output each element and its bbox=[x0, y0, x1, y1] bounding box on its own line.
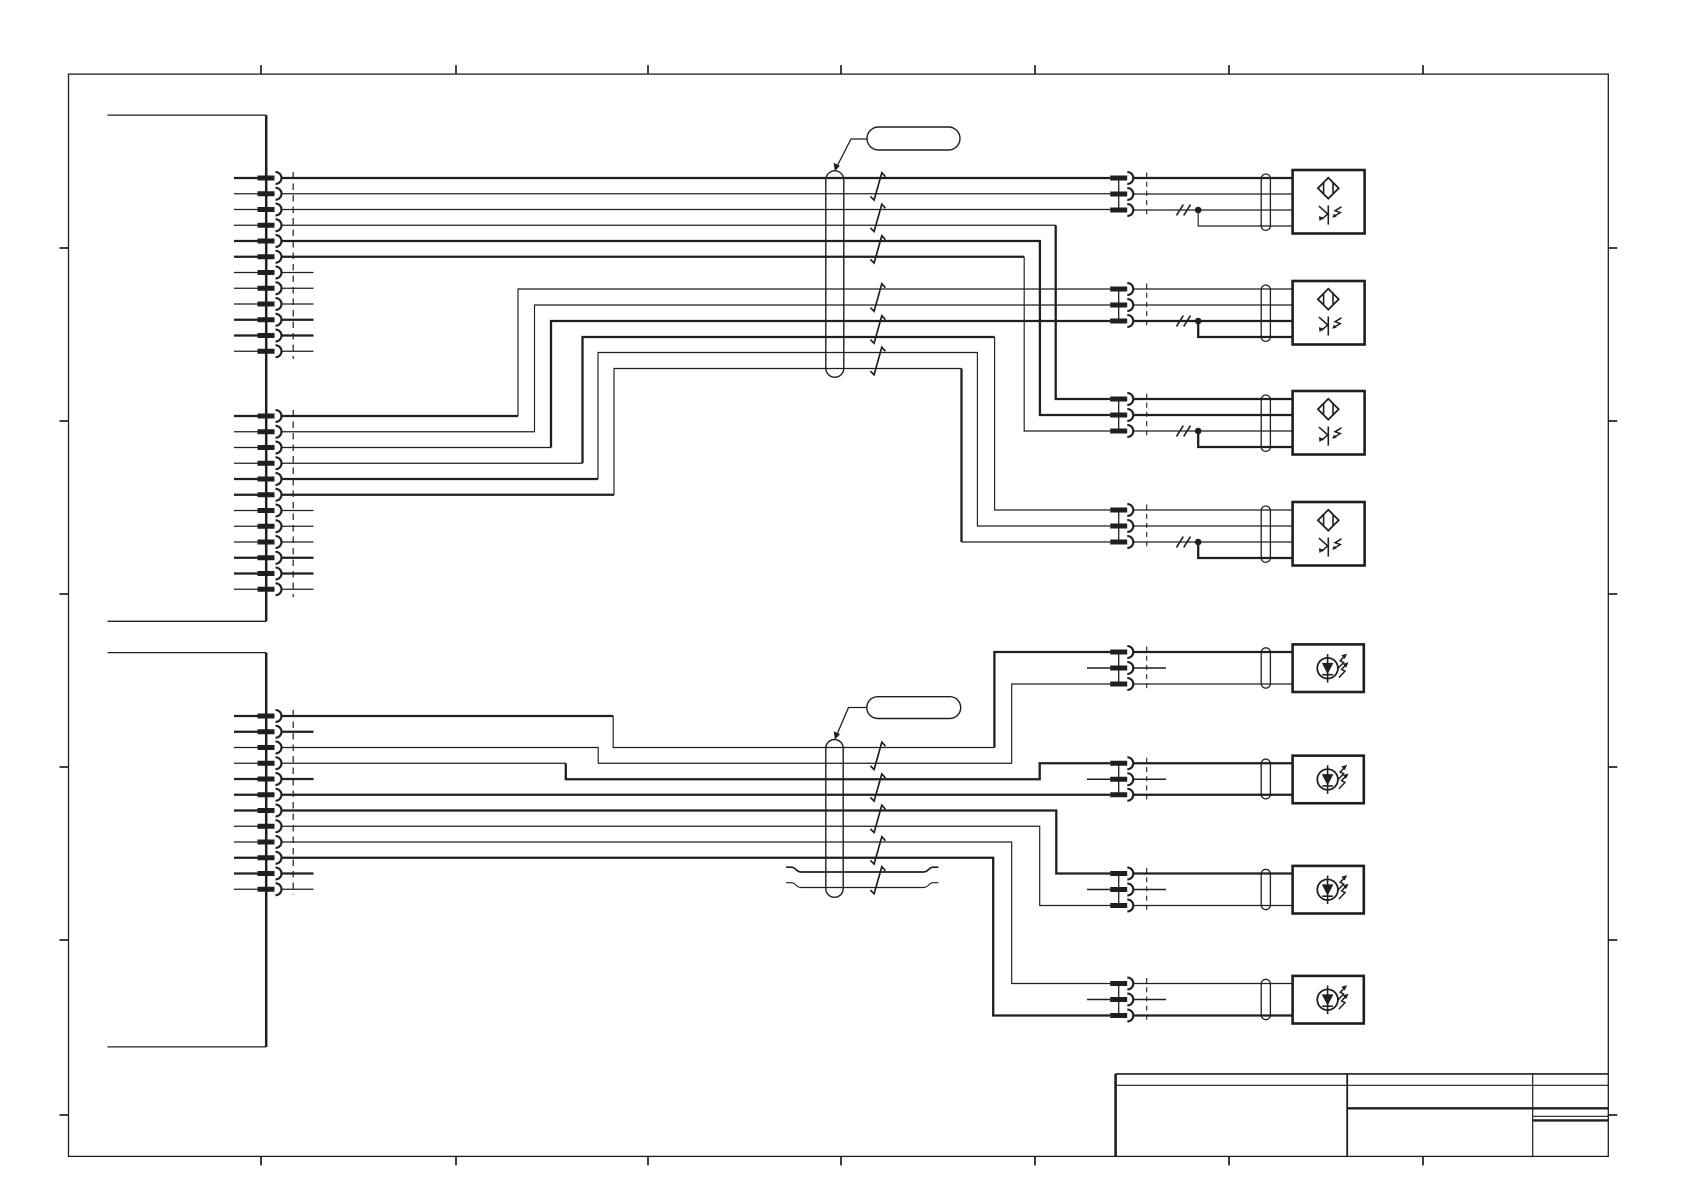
inline connector B2 mating line bbox=[1118, 289, 1120, 321]
wire E4 pin3 to emitter bbox=[1133, 1014, 1292, 1016]
inline connector pin B2:2 bbox=[1110, 299, 1133, 311]
wire B4 pin2 to sensor bbox=[1133, 525, 1292, 527]
connector X1 mating dashed line bbox=[292, 172, 294, 359]
wire B1 shield drop to pin4 bbox=[1198, 210, 1292, 226]
ECU A1 connector pin X2-10 bbox=[234, 552, 282, 564]
ECU A2 connector pin X3-9 bbox=[234, 836, 282, 848]
ECU A1 connector pin X1-12 bbox=[234, 345, 282, 357]
wire E2 pin3 to emitter bbox=[1133, 794, 1292, 796]
inline connector E2 mating line bbox=[1118, 763, 1120, 795]
inline connector pin E2:2 bbox=[1110, 773, 1133, 785]
inline connector B4 mating line bbox=[1118, 510, 1120, 542]
wire B3 pin3 to sensor bbox=[1133, 430, 1292, 432]
inline connector pin B4:1 bbox=[1110, 504, 1133, 516]
inline connector E3 dashed line bbox=[1146, 868, 1148, 911]
wire B3 shield drop to pin4 bbox=[1198, 431, 1292, 447]
inline connector pin E2:1 bbox=[1110, 757, 1133, 769]
inline connector pin B4:2 bbox=[1110, 520, 1133, 532]
wire X3-6 to emitter E2 (straight) bbox=[282, 794, 1111, 796]
wire X1-3 to sensor B1 bbox=[282, 209, 1111, 211]
wire E4 pin1 to emitter bbox=[1133, 983, 1292, 985]
wire E3 pin3 to emitter bbox=[1133, 905, 1292, 907]
ECU A1 connector pin X1-2 bbox=[234, 188, 282, 200]
wire B2 pin2 to sensor bbox=[1133, 304, 1292, 306]
inline connector B1 dashed line bbox=[1146, 173, 1148, 216]
inline connector pin E4:3 bbox=[1110, 1010, 1133, 1022]
ECU A1 connector pin X2-6 bbox=[234, 489, 282, 501]
wire X3-10 to emitter E4 (downward riser) bbox=[282, 858, 1111, 1016]
inline connector B2 dashed line bbox=[1146, 284, 1148, 327]
wire-pair twist symbol upper 4 bbox=[870, 284, 885, 312]
wire B4 pin1 to sensor bbox=[1133, 509, 1292, 511]
wire B1 pin1 to sensor bbox=[1133, 177, 1292, 179]
wire X1-4 to sensor B3 (with riser) bbox=[282, 225, 1111, 399]
ECU A1 connector pin X2-4 bbox=[234, 457, 282, 469]
ECU A2 connector pin X3-7 bbox=[234, 805, 282, 817]
ECU A1 connector pin X2-9 bbox=[234, 536, 282, 548]
ECU A2 connector pin X3-3 bbox=[234, 742, 282, 754]
wire X2-1 to sensor B2 (staircase riser) bbox=[282, 289, 1111, 416]
ECU A1 connector pin X2-7 bbox=[234, 505, 282, 517]
inline connector pin B1:2 bbox=[1110, 188, 1133, 200]
wire E2 pin1 to emitter bbox=[1133, 762, 1292, 764]
wire B2 pin1 to sensor bbox=[1133, 288, 1292, 290]
LED emitter E3 bbox=[1293, 866, 1364, 914]
wire B4 shield drop to pin4 bbox=[1198, 542, 1292, 558]
inline connector pin B1:3 bbox=[1110, 204, 1133, 216]
inline connector E1 mating line bbox=[1118, 652, 1120, 684]
splice junction dot on B2 bbox=[1195, 318, 1202, 325]
ECU A1 connector pin X1-6 bbox=[234, 251, 282, 263]
wire E1 pin3 to emitter bbox=[1133, 683, 1292, 685]
wire-pair twist symbol upper 5 bbox=[870, 316, 885, 344]
cable W2 label callout bbox=[834, 697, 961, 740]
wire-pair twist symbol lower 3 bbox=[870, 805, 885, 832]
splice junction dot on B3 bbox=[1195, 428, 1202, 435]
inline connector pin B1:1 bbox=[1110, 172, 1133, 184]
ECU A2 connector pin X3-4 bbox=[234, 757, 282, 769]
wire-pair twist symbol lower 1 bbox=[870, 742, 885, 769]
ECU A1 connector pin X1-3 bbox=[234, 204, 282, 216]
wire-pair twist symbol upper 1 bbox=[870, 173, 885, 200]
shield mark // on B2 pin3 wire bbox=[1177, 316, 1191, 327]
inline connector pin B2:3 bbox=[1110, 315, 1133, 327]
ECU A1 connector pin X2-8 bbox=[234, 520, 282, 532]
wire B3 pin1 to sensor bbox=[1133, 398, 1292, 400]
LED emitter E4 bbox=[1293, 976, 1364, 1024]
inline connector E4 dashed line bbox=[1146, 978, 1148, 1021]
wire X1-2 to sensor B1 bbox=[282, 193, 1111, 195]
ECU A2 connector pin X3-5 bbox=[234, 773, 282, 785]
inline connector E3 mating line bbox=[1118, 874, 1120, 906]
ECU A1 connector pin X1-5 bbox=[234, 235, 282, 247]
ECU A1 connector pin X1-10 bbox=[234, 314, 282, 326]
unused pin stub wires bbox=[282, 273, 314, 890]
wire E3 pin1 to emitter bbox=[1133, 872, 1292, 874]
ECU A2 connector pin X3-8 bbox=[234, 820, 282, 832]
wire X1-6 to sensor B3 (with riser) bbox=[282, 257, 1111, 431]
wire B1 pin3 to sensor bbox=[1133, 209, 1292, 211]
inline connector pin E4:1 bbox=[1110, 978, 1133, 990]
ECU A2 connector pin X3-11 bbox=[234, 868, 282, 880]
inline connector pin B4:3 bbox=[1110, 536, 1133, 548]
wire X3-7 to emitter E3 (downward riser) bbox=[282, 811, 1111, 874]
wire B1 pin2 to sensor bbox=[1133, 193, 1292, 195]
LED emitter E2 bbox=[1293, 756, 1364, 804]
shield mark // on B3 pin3 wire bbox=[1177, 426, 1191, 437]
sensor B2 cable sheath oval bbox=[1261, 285, 1270, 341]
splice junction dot on B1 bbox=[1195, 207, 1202, 214]
ECU A1 connector pin X2-1 bbox=[234, 410, 282, 422]
ECU A2 connector pin X3-12 bbox=[234, 883, 282, 895]
inline connector pin E3:1 bbox=[1110, 868, 1133, 880]
wire B4 pin3 to sensor bbox=[1133, 541, 1292, 543]
wire X3-4 to emitter E2 (steps down then up) bbox=[282, 763, 1111, 779]
spare wire 2 (coiled ends) bbox=[786, 883, 939, 888]
wire X2-3 to sensor B2 (staircase riser) bbox=[282, 321, 1111, 448]
inline connector B4 dashed line bbox=[1146, 505, 1148, 548]
wire-pair twist symbol upper 3 bbox=[870, 236, 885, 263]
inline connector pin E3:3 bbox=[1110, 900, 1133, 912]
wire X3-9 to emitter E4 (downward riser) bbox=[282, 842, 1111, 984]
shield mark // on B4 pin3 wire bbox=[1177, 537, 1191, 548]
wire X2-2 to sensor B2 (staircase riser) bbox=[282, 305, 1111, 432]
title block bbox=[1116, 1074, 1609, 1157]
inline connector E1 dashed line bbox=[1146, 647, 1148, 690]
inline connector pin E3:2 bbox=[1110, 884, 1133, 896]
inline connector B3 dashed line bbox=[1146, 394, 1148, 437]
sensor B1 cable sheath oval bbox=[1261, 174, 1270, 230]
ECU A2 connector pin X3-10 bbox=[234, 852, 282, 864]
ECU A1 connector pin X2-11 bbox=[234, 568, 282, 580]
inline connector pin E1:1 bbox=[1110, 646, 1133, 658]
emitter E1 cable sheath oval bbox=[1261, 648, 1270, 688]
emitter E2 cable sheath oval bbox=[1261, 759, 1270, 799]
ECU A2 outline (lower control unit) bbox=[108, 653, 267, 1047]
ECU A2 connector pin X3-6 bbox=[234, 789, 282, 801]
ECU A1 connector pin X1-7 bbox=[234, 267, 282, 279]
wire E1 pin1 to emitter bbox=[1133, 651, 1292, 653]
shield mark // on B1 pin3 wire bbox=[1177, 205, 1191, 216]
inline connector pin B3:2 bbox=[1110, 409, 1133, 421]
inline connector pin B3:1 bbox=[1110, 393, 1133, 405]
wire X2-6 to sensor B4 (staircase + downward riser) bbox=[282, 369, 1111, 543]
unused middle pin stubs E1 bbox=[1087, 667, 1166, 669]
wire-pair twist symbol lower 5 bbox=[870, 867, 885, 894]
wire X2-4 to sensor B4 (staircase + downward riser) bbox=[282, 337, 1111, 510]
ECU A2 connector pin X3-2 bbox=[234, 726, 282, 738]
inline connector pin E1:3 bbox=[1110, 678, 1133, 690]
wire B2 shield drop to pin4 bbox=[1198, 321, 1292, 337]
photoelectric sensor B1 bbox=[1293, 170, 1365, 234]
ECU A2 connector pin X3-1 bbox=[234, 710, 282, 722]
splice junction dot on B4 bbox=[1195, 539, 1202, 546]
ECU A1 outline (upper control unit) bbox=[108, 115, 267, 621]
ECU A1 connector pin X1-11 bbox=[234, 330, 282, 342]
wire-pair twist symbol lower 4 bbox=[870, 837, 885, 864]
cable sheath W1 (upper harness oval) bbox=[826, 171, 844, 377]
ECU A1 connector pin X1-1 bbox=[234, 172, 282, 184]
inline connector E2 dashed line bbox=[1146, 758, 1148, 801]
wire-pair twist symbol upper 6 bbox=[870, 347, 885, 375]
ECU A1 connector pin X1-9 bbox=[234, 298, 282, 310]
wire B3 pin2 to sensor bbox=[1133, 414, 1292, 416]
wire X3-3 to emitter E1 (steps down then riser up) bbox=[282, 684, 1111, 763]
unused middle pin stubs E2 bbox=[1087, 778, 1166, 780]
ECU A1 connector pin X2-3 bbox=[234, 442, 282, 454]
wire X1-5 to sensor B3 (with riser) bbox=[282, 241, 1111, 415]
cable W1 label callout bbox=[834, 127, 960, 171]
ECU A1 connector pin X2-5 bbox=[234, 473, 282, 485]
sensor B4 cable sheath oval bbox=[1261, 506, 1270, 562]
photoelectric sensor B2 bbox=[1293, 281, 1365, 345]
wire X3-8 to emitter E3 (downward riser) bbox=[282, 826, 1111, 905]
inline connector pin E4:2 bbox=[1110, 994, 1133, 1006]
ECU A1 connector pin X1-8 bbox=[234, 282, 282, 294]
spare wire 1 (coiled ends) bbox=[786, 867, 939, 872]
wire X2-5 to sensor B4 (staircase + downward riser) bbox=[282, 353, 1111, 527]
wire-pair twist symbol lower 2 bbox=[870, 774, 885, 801]
ECU A1 connector pin X1-4 bbox=[234, 219, 282, 231]
sensor B3 cable sheath oval bbox=[1261, 395, 1270, 451]
ECU A1 connector pin X2-12 bbox=[234, 583, 282, 595]
photoelectric sensor B3 bbox=[1293, 391, 1365, 455]
inline connector E4 mating line bbox=[1118, 984, 1120, 1016]
inline connector pin B2:1 bbox=[1110, 283, 1133, 295]
emitter E3 cable sheath oval bbox=[1261, 869, 1270, 909]
emitter E4 cable sheath oval bbox=[1261, 979, 1270, 1019]
inline connector pin E1:2 bbox=[1110, 662, 1133, 674]
cable sheath W2 (lower harness oval) bbox=[826, 740, 843, 898]
unused middle pin stubs E3 bbox=[1087, 889, 1166, 891]
wire-pair twist symbol upper 2 bbox=[870, 204, 885, 231]
inline connector pin E2:3 bbox=[1110, 789, 1133, 801]
inline connector pin B3:3 bbox=[1110, 425, 1133, 437]
connector X3 mating dashed line bbox=[292, 710, 294, 895]
unused middle pin stubs E4 bbox=[1087, 999, 1166, 1001]
photoelectric sensor B4 bbox=[1293, 502, 1365, 566]
wire B2 pin3 to sensor bbox=[1133, 320, 1292, 322]
inline connector B3 mating line bbox=[1118, 399, 1120, 431]
LED emitter E1 bbox=[1293, 644, 1364, 692]
connector X2 mating dashed line bbox=[292, 410, 294, 597]
ECU A1 connector pin X2-2 bbox=[234, 426, 282, 438]
inline connector B1 mating line bbox=[1118, 178, 1120, 210]
wire X3-1 to emitter E1 (steps down then riser up) bbox=[282, 652, 1111, 748]
wire X1-1 to sensor B1 (supply, thick) bbox=[282, 177, 1111, 179]
